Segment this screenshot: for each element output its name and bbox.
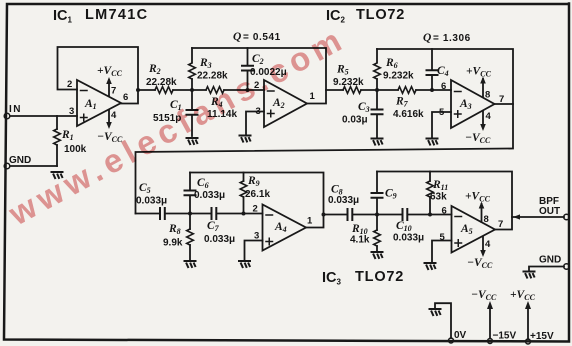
svg-text:R11: R11 (432, 179, 448, 192)
svg-text:= 0.541: = 0.541 (243, 32, 281, 43)
resistor R9 26.1k (feedback) (240, 173, 270, 214)
wire GND to R1 bottom (10, 165, 57, 167)
node GND (right terminal) (539, 255, 569, 270)
pin 4 -Vcc supply (465, 111, 492, 145)
ground (right GND) (524, 272, 535, 278)
svg-text:7: 7 (498, 219, 503, 230)
svg-text:C5: C5 (139, 182, 151, 195)
op-amp A5 (440, 191, 504, 271)
svg-text:−VCC: −VCC (465, 132, 491, 145)
svg-text:A4: A4 (274, 221, 287, 234)
node IN (input terminal) (4, 104, 22, 119)
svg-text:TLO72: TLO72 (355, 269, 404, 285)
svg-text:7: 7 (111, 86, 116, 97)
pin 7 +Vcc supply (97, 65, 123, 97)
node F junction (375, 213, 379, 217)
ground (0V supply) (430, 309, 441, 315)
wire 0V to chassis ground (435, 303, 451, 338)
node E junction (188, 212, 192, 216)
svg-text:www.elecfans.com: www.elecfans.com (2, 19, 352, 233)
capacitor C5 0.033u (136, 182, 167, 219)
wire A5 pin 5 to ground (432, 241, 452, 263)
svg-text:R1: R1 (61, 129, 74, 142)
svg-text:0.03μ: 0.03μ (342, 115, 368, 126)
svg-text:9.9k: 9.9k (163, 238, 183, 249)
svg-text:8: 8 (485, 90, 490, 101)
wire R5 to node D (361, 89, 398, 91)
ground (below A5 pin 5) (425, 263, 436, 269)
node A4 output tap (322, 213, 326, 217)
node B junction (190, 88, 194, 92)
ground (below A3 pin 5) (427, 139, 438, 145)
wire C5 to node E (166, 213, 211, 215)
pin 4 -Vcc supply (467, 237, 493, 270)
svg-text:IC1: IC1 (53, 8, 73, 25)
ground (below A4 pin 3) (239, 261, 250, 267)
svg-text:GND: GND (539, 255, 561, 266)
wire A5 feedback loop (output 7 over C9/R11) (377, 172, 512, 230)
ground (below R1) (52, 172, 63, 178)
svg-text:1: 1 (307, 216, 313, 227)
svg-text:R6: R6 (385, 57, 398, 70)
resistor R2 22.28k (146, 63, 177, 93)
wire A3 feedback loop (output 7 over R6/C4) (377, 49, 513, 104)
svg-text:−VCC: −VCC (467, 257, 493, 270)
svg-text:C4: C4 (437, 65, 449, 78)
capacitor C2 0.0022u (feedback) (242, 48, 287, 90)
capacitor C7 0.033u (204, 208, 235, 245)
resistor R10 4.1k (350, 215, 380, 252)
svg-text:R5: R5 (336, 64, 349, 77)
ground (below R8) (185, 261, 196, 267)
node 0V terminal (449, 330, 467, 343)
wire A2 feedback loop (output 1 over R3/C2) (192, 48, 326, 104)
resistor R6 9.232k (feedback) (374, 49, 414, 90)
junction arrow on BPF wire (513, 214, 520, 219)
svg-text:4: 4 (486, 111, 492, 122)
wire C10 to A5 pin 6 (408, 214, 452, 216)
supply arrow +Vcc (510, 289, 536, 339)
op-amp A2 (254, 80, 316, 127)
wire R4 to A2 pin 2 (224, 89, 264, 91)
svg-text:A1: A1 (84, 98, 97, 111)
svg-text:6: 6 (123, 92, 128, 103)
svg-text:6: 6 (442, 206, 447, 217)
svg-text:C10: C10 (396, 220, 412, 233)
svg-text:R9: R9 (247, 175, 260, 188)
node D junction (375, 88, 379, 92)
svg-text:100k: 100k (64, 144, 87, 155)
svg-text:0.033μ: 0.033μ (194, 190, 225, 201)
resistor R8 9.9k (163, 214, 193, 261)
svg-text:−VCC: −VCC (471, 289, 497, 302)
svg-text:TLO72: TLO72 (356, 7, 405, 23)
ground (below A2 pin 3) (240, 136, 251, 142)
svg-text:1: 1 (310, 91, 316, 102)
resistor R7 4.616k (393, 87, 424, 120)
pin 4 -Vcc supply (97, 110, 123, 144)
svg-text:4.616k: 4.616k (393, 109, 424, 120)
resistor R5 9.232k (333, 64, 364, 94)
wire A3 output down and across to second row (136, 104, 514, 214)
node BPF OUT (output terminal) (539, 196, 569, 220)
svg-text:2: 2 (253, 204, 258, 215)
node R9 tap (242, 212, 246, 216)
wire A1 out to R2 (138, 89, 155, 91)
op-amp A3 (439, 66, 504, 146)
svg-text:0.033μ: 0.033μ (393, 233, 424, 244)
svg-text:R3: R3 (199, 57, 212, 70)
svg-text:8: 8 (484, 214, 489, 225)
svg-text:3: 3 (69, 106, 74, 117)
svg-text:IC3: IC3 (322, 270, 342, 287)
svg-text:7: 7 (499, 94, 504, 105)
svg-text:26.1k: 26.1k (245, 189, 270, 200)
svg-text:+VCC: +VCC (465, 191, 491, 204)
svg-text:R2: R2 (148, 63, 161, 76)
capacitor C9 (feedback) (372, 172, 397, 215)
wire A5 output to BPF OUT terminal (512, 216, 564, 218)
wire C8 to node F (353, 214, 402, 216)
svg-text:R7: R7 (395, 96, 409, 109)
ground (below R10) (372, 252, 383, 258)
svg-text:R8: R8 (168, 223, 181, 236)
resistor R3 22.28k (feedback) (189, 48, 228, 90)
capacitor C3 0.03u (342, 90, 383, 137)
svg-text:6: 6 (441, 81, 446, 92)
wire R7 to A3 pin 6 (416, 89, 451, 91)
svg-text:C6: C6 (197, 177, 209, 190)
svg-text:A2: A2 (272, 97, 285, 110)
svg-text:22.28k: 22.28k (146, 77, 177, 88)
resistor R4 11.14k (206, 87, 237, 120)
svg-text:0.033μ: 0.033μ (328, 195, 359, 206)
svg-text:+VCC: +VCC (466, 66, 492, 79)
svg-text:2: 2 (67, 79, 72, 90)
node A1 output tap (136, 88, 140, 92)
wire row2 input to C5 (136, 213, 160, 215)
svg-text:+VCC: +VCC (510, 289, 536, 302)
node -15V terminal (488, 331, 517, 344)
wire GND right (529, 267, 564, 271)
wire A2 pin 3 to ground (246, 112, 264, 135)
resistor R1 100k (54, 116, 87, 166)
node GND (left terminal) (4, 155, 31, 169)
wire IN to A1 pin 3 (10, 115, 77, 117)
capacitor C1 5151p (153, 90, 198, 136)
svg-text:= 1.306: = 1.306 (433, 33, 471, 44)
svg-text:C7: C7 (207, 220, 220, 233)
svg-text:Q: Q (423, 32, 431, 44)
svg-text:−15V: −15V (493, 331, 517, 342)
svg-text:0.033μ: 0.033μ (136, 196, 167, 207)
svg-text:4: 4 (111, 110, 117, 121)
supply arrow -Vcc (471, 289, 497, 339)
op-amp A1 (67, 65, 128, 144)
pin 8 +Vcc supply (466, 66, 492, 101)
capacitor C4 (feedback) (427, 49, 449, 90)
node R11 tap (428, 213, 432, 217)
ground (below C3) (372, 139, 383, 145)
wire A1 feedback loop (output 6 to pin 2) (58, 47, 139, 104)
pin 8 +Vcc supply (465, 191, 491, 226)
wire A4 pin 3 to ground (245, 241, 263, 261)
watermark www.elecfans.com (2, 19, 352, 233)
svg-text:C3: C3 (358, 101, 370, 114)
capacitor C8 0.033u (328, 184, 359, 221)
svg-text:LM741C: LM741C (85, 7, 148, 23)
svg-text:9.232k: 9.232k (333, 77, 364, 88)
svg-text:9.232k: 9.232k (383, 71, 414, 82)
svg-text:+VCC: +VCC (97, 65, 123, 78)
node +15V terminal (526, 331, 554, 344)
op-amp A4 (253, 204, 314, 251)
capacitor C6 0.033u (feedback) (185, 173, 226, 214)
resistor R11 63k (feedback) (427, 172, 449, 215)
svg-text:A3: A3 (459, 98, 472, 111)
svg-text:4.1k: 4.1k (350, 235, 370, 246)
svg-text:Q: Q (233, 31, 241, 43)
wire A4 out to C8 (324, 214, 348, 216)
svg-text:GND: GND (9, 155, 31, 166)
capacitor C10 0.033u (393, 209, 424, 244)
svg-text:A5: A5 (460, 223, 473, 236)
ground (below C1) (187, 138, 198, 144)
wire A2 output to R5 (326, 89, 343, 91)
wire A3 pin 5 to ground (432, 112, 451, 137)
wire A4 feedback loop (output 1 over C6/R9) (190, 173, 324, 228)
wire C7 to A4 pin 2 (217, 213, 263, 215)
wire R2 to node B (173, 89, 206, 91)
node C4 tap (430, 88, 434, 92)
svg-text:4: 4 (485, 239, 491, 250)
svg-text:0V: 0V (454, 330, 467, 341)
svg-text:OUT: OUT (539, 206, 560, 217)
node C2 tap (246, 88, 250, 92)
svg-text:0.033μ: 0.033μ (204, 234, 235, 245)
svg-text:C9: C9 (385, 188, 397, 201)
svg-text:IN: IN (9, 104, 22, 115)
svg-text:+15V: +15V (530, 331, 554, 342)
svg-text:63k: 63k (430, 192, 447, 203)
